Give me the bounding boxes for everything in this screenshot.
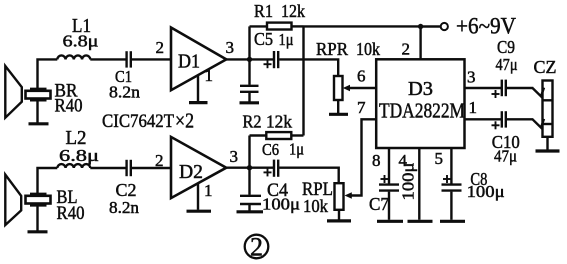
capacitor C10 xyxy=(492,111,506,129)
potentiometer RPR xyxy=(334,76,343,100)
wire D1 out to node A xyxy=(226,58,249,60)
wire BR top xyxy=(38,59,58,88)
svg-text:TDA2822M: TDA2822M xyxy=(379,99,465,123)
inductor L2 xyxy=(57,164,90,168)
jack CZ body xyxy=(543,81,553,137)
wire supply rail to R2 xyxy=(302,26,304,135)
op-amp D2 xyxy=(171,137,226,198)
ground D2 pin1 xyxy=(187,183,212,211)
node B junction xyxy=(247,165,252,170)
capacitor C1 xyxy=(127,51,131,67)
CZ contact top xyxy=(533,88,545,97)
transducer BR R40 xyxy=(26,89,51,101)
inductor L1 xyxy=(57,55,90,59)
potentiometer RPL xyxy=(335,183,344,210)
svg-text:RPR: RPR xyxy=(316,39,348,59)
wire C9 to CZ xyxy=(507,87,534,89)
svg-text:CIC7642T: CIC7642T xyxy=(102,111,174,132)
wire R1 to power node xyxy=(304,25,421,27)
svg-text:3: 3 xyxy=(230,147,239,166)
svg-text:+6~9V: +6~9V xyxy=(456,14,516,39)
svg-text:1μ: 1μ xyxy=(279,30,294,49)
wire power node to terminal xyxy=(421,25,441,27)
svg-text:10k: 10k xyxy=(303,196,328,216)
svg-text:1μ: 1μ xyxy=(289,140,304,159)
wire RPR wiper to D3 pin6 xyxy=(343,85,376,91)
svg-text:100μ: 100μ xyxy=(262,195,300,214)
transducer BL R40 xyxy=(26,194,51,206)
ground BL xyxy=(28,206,48,232)
wire node A to C5 xyxy=(250,58,274,60)
ground C3 xyxy=(240,93,260,103)
wire D3 pin4 ground xyxy=(418,148,420,220)
wire D3 pin8 to C7 xyxy=(388,148,390,184)
capacitor C2 xyxy=(127,160,131,176)
capacitor C7 xyxy=(379,175,399,191)
speaker BL cone xyxy=(5,175,21,225)
wire D3 pin3 to C9 xyxy=(465,87,502,89)
svg-text:2: 2 xyxy=(250,233,263,262)
svg-text:8: 8 xyxy=(372,151,381,170)
svg-text:2: 2 xyxy=(402,40,411,59)
ground C7 xyxy=(377,192,403,222)
svg-text:R40: R40 xyxy=(57,203,85,224)
svg-text:3: 3 xyxy=(226,38,235,57)
svg-text:C9: C9 xyxy=(497,37,515,57)
op-amp D1 xyxy=(171,28,226,91)
wire L1 to C1 xyxy=(90,58,125,60)
capacitor C6 xyxy=(264,160,279,177)
node power junction xyxy=(418,24,423,29)
svg-text:4: 4 xyxy=(399,151,408,170)
svg-text:3: 3 xyxy=(467,68,476,87)
wire BL top xyxy=(38,168,58,193)
figure number 2 badge xyxy=(245,233,269,262)
capacitor C9 xyxy=(492,80,506,98)
svg-text:8.2n: 8.2n xyxy=(109,83,141,102)
svg-text:CZ: CZ xyxy=(534,57,557,77)
svg-text:12k: 12k xyxy=(266,112,292,132)
resistor R1 xyxy=(250,23,304,30)
wire node B to C6 xyxy=(250,166,274,168)
wire RPL wiper to D3 pin7 xyxy=(345,119,377,198)
wire L2 to C2 xyxy=(90,167,125,169)
wire C2 to D2 pin2 xyxy=(132,167,171,169)
wire D3 pin2 to power xyxy=(419,27,421,60)
svg-text:×2: ×2 xyxy=(175,109,194,133)
wire D3 pin5 to C8 xyxy=(450,148,452,184)
svg-text:47μ: 47μ xyxy=(494,147,517,166)
ground RPL xyxy=(327,210,351,221)
wire C1 to D1 pin2 xyxy=(132,58,171,60)
resistor R2 xyxy=(250,132,304,139)
svg-text:2: 2 xyxy=(155,151,164,170)
svg-text:C2: C2 xyxy=(116,180,137,200)
svg-text:5: 5 xyxy=(435,149,444,168)
capacitor C4 xyxy=(240,168,261,204)
wire D3 pin1 to C10 xyxy=(465,118,502,120)
ground C8 xyxy=(440,192,465,222)
svg-text:10k: 10k xyxy=(356,39,380,59)
ground C4 xyxy=(237,205,264,212)
svg-text:R1: R1 xyxy=(254,1,273,21)
speaker BR cone xyxy=(5,66,22,118)
svg-text:1: 1 xyxy=(205,66,214,85)
svg-text:8.2n: 8.2n xyxy=(109,198,140,217)
svg-text:R2: R2 xyxy=(243,112,262,132)
svg-text:100μ: 100μ xyxy=(467,182,505,201)
ground CZ xyxy=(536,137,560,151)
node A junction xyxy=(247,57,252,62)
capacitor C5 xyxy=(264,51,279,68)
capacitor C8 xyxy=(442,175,462,191)
svg-text:7: 7 xyxy=(357,98,366,117)
capacitor C3 xyxy=(240,59,259,91)
IC D3 TDA2822M xyxy=(376,59,464,148)
svg-text:C7: C7 xyxy=(369,194,389,214)
wire C5 to RPR xyxy=(279,59,338,76)
svg-text:6.8μ: 6.8μ xyxy=(59,146,99,165)
svg-text:47μ: 47μ xyxy=(496,55,518,74)
svg-text:12k: 12k xyxy=(281,1,305,21)
power terminal xyxy=(441,23,448,30)
svg-text:6: 6 xyxy=(357,67,366,86)
svg-text:D1: D1 xyxy=(178,51,200,73)
wire C6 to RPL xyxy=(279,168,339,184)
svg-text:D3: D3 xyxy=(408,78,433,100)
CZ contact bottom xyxy=(533,119,545,128)
ground BR xyxy=(29,101,49,124)
svg-text:2: 2 xyxy=(156,38,165,57)
svg-text:C6: C6 xyxy=(262,140,279,159)
svg-text:1: 1 xyxy=(469,98,478,117)
svg-text:6.8μ: 6.8μ xyxy=(63,32,99,51)
wire node A to R1 xyxy=(248,26,250,59)
wire D2 out to node B xyxy=(226,166,249,168)
ground RPR xyxy=(329,100,348,114)
wire C10 to CZ xyxy=(507,118,534,120)
ground pin4 xyxy=(408,220,433,223)
svg-text:D2: D2 xyxy=(179,161,203,183)
svg-text:R40: R40 xyxy=(55,96,83,117)
wire node B to R2 xyxy=(248,136,250,168)
svg-text:1: 1 xyxy=(204,181,213,200)
svg-text:C5: C5 xyxy=(254,29,273,49)
ground D1 pin1 xyxy=(189,75,208,103)
